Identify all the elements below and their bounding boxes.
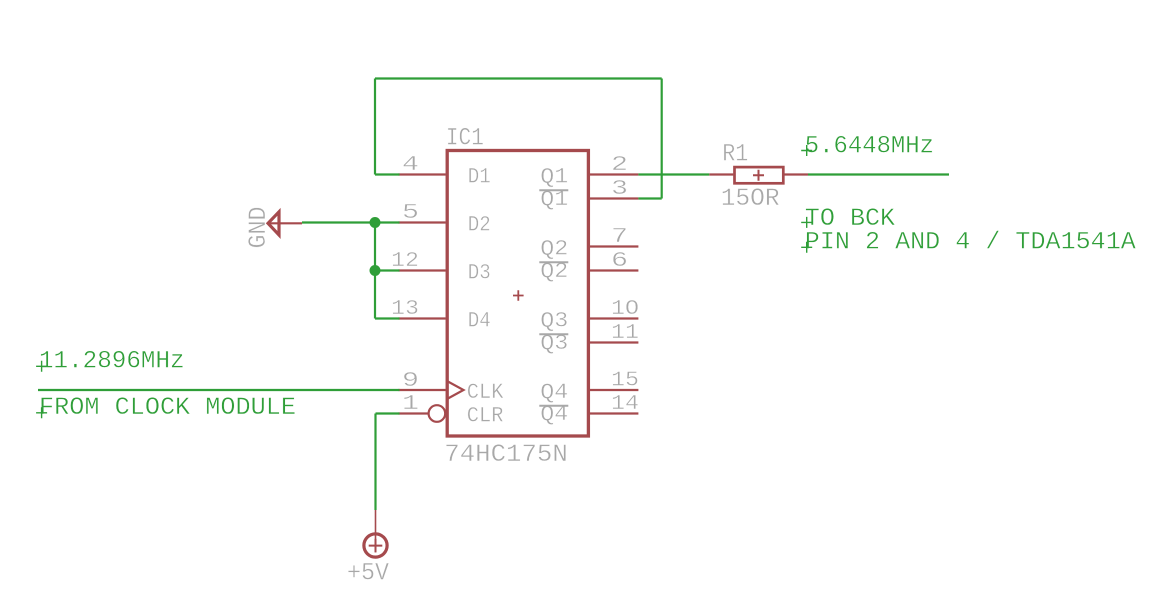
supply +5V bbox=[347, 510, 389, 588]
svg-text:D4: D4 bbox=[468, 309, 491, 334]
wire to pin 13 bbox=[375, 317, 400, 319]
pin 11 stub bbox=[590, 341, 638, 343]
svg-text:5: 5 bbox=[402, 202, 419, 225]
pin 7 stub bbox=[590, 245, 638, 247]
net label 5.6448MHz bbox=[801, 132, 934, 161]
svg-text:15: 15 bbox=[611, 370, 639, 393]
R1 right lead bbox=[784, 173, 808, 175]
+5V circle bbox=[364, 534, 387, 557]
net label 11.2896MHz bbox=[36, 347, 185, 376]
svg-text:2: 2 bbox=[611, 154, 628, 177]
svg-text:PIN 2 AND 4 / TDA1541A: PIN 2 AND 4 / TDA1541A bbox=[805, 227, 1136, 256]
pin 15 stub bbox=[590, 389, 638, 391]
R1 origin cross bbox=[753, 170, 764, 181]
wire feedback top horizontal bbox=[375, 77, 662, 79]
svg-text:7: 7 bbox=[611, 226, 628, 249]
pin 1 inversion bubble bbox=[429, 405, 446, 422]
svg-text:R1: R1 bbox=[722, 140, 748, 169]
svg-text:Q1: Q1 bbox=[540, 165, 568, 190]
wire pin 1 horizontal bbox=[376, 412, 400, 414]
wire resistor to output bbox=[808, 173, 949, 175]
pin 12 stub bbox=[398, 269, 445, 271]
svg-text:6: 6 bbox=[611, 250, 628, 273]
svg-text:11.2896MHz: 11.2896MHz bbox=[39, 347, 185, 376]
wire clock input to pin 9 bbox=[38, 389, 400, 391]
svg-text:4: 4 bbox=[402, 154, 419, 177]
svg-text:9: 9 bbox=[402, 370, 419, 393]
pin 13 stub bbox=[398, 317, 445, 319]
node junction 2 bbox=[370, 265, 381, 276]
wire junction2 down bbox=[374, 271, 376, 319]
wire junction1 to junction2 bbox=[374, 223, 376, 271]
pin 9 stub bbox=[398, 389, 445, 391]
wire junction2 to pin 12 bbox=[375, 269, 400, 271]
pin 5 stub bbox=[398, 221, 445, 223]
svg-text:5.6448MHz: 5.6448MHz bbox=[805, 132, 934, 161]
svg-text:IC1: IC1 bbox=[446, 124, 484, 153]
pin 4 stub bbox=[398, 173, 445, 175]
svg-text:Q3: Q3 bbox=[540, 309, 568, 334]
svg-text:74HC175N: 74HC175N bbox=[444, 440, 568, 469]
pin 10 stub bbox=[590, 317, 638, 319]
pin 9 clock triangle bbox=[447, 381, 464, 399]
text label PIN 2 AND 4 / TDA1541A bbox=[801, 227, 1136, 256]
R1 body bbox=[735, 167, 784, 183]
svg-text:Q2: Q2 bbox=[540, 237, 568, 262]
wire junction to pin 5 bbox=[375, 221, 400, 223]
wire pin2 to resistor bbox=[638, 173, 709, 175]
IC IC1 74HC175N quad D flip-flop bbox=[391, 124, 639, 470]
node junction 1 bbox=[370, 217, 381, 228]
svg-text:CLK: CLK bbox=[467, 380, 504, 405]
GND pin line bbox=[267, 222, 302, 224]
wire feedback to pin 3 bbox=[638, 197, 661, 199]
wire feedback right vertical bbox=[661, 79, 663, 199]
GND arrow triangle bbox=[268, 212, 279, 235]
wire pin 1 down to +5V bbox=[374, 414, 376, 511]
wire gnd to junction bbox=[302, 221, 375, 223]
svg-text:CLR: CLR bbox=[467, 404, 504, 429]
pin 6 stub bbox=[590, 269, 638, 271]
svg-text:FROM CLOCK MODULE: FROM CLOCK MODULE bbox=[39, 393, 296, 422]
svg-text:D3: D3 bbox=[468, 261, 491, 286]
pin 2 stub bbox=[590, 173, 638, 175]
svg-text:15OR: 15OR bbox=[721, 184, 780, 213]
IC1 body bbox=[447, 151, 588, 437]
pin 14 stub bbox=[590, 412, 638, 414]
svg-text:D1: D1 bbox=[468, 165, 491, 190]
+5V cross bbox=[369, 539, 383, 553]
svg-text:1O: 1O bbox=[611, 298, 639, 321]
IC1 origin cross bbox=[513, 290, 524, 301]
R1 left lead bbox=[709, 173, 733, 175]
wire feedback to pin 4 bbox=[375, 173, 400, 175]
pin 3 stub bbox=[590, 197, 638, 199]
svg-text:1: 1 bbox=[402, 393, 419, 416]
svg-text:GND: GND bbox=[244, 207, 273, 249]
svg-text:D2: D2 bbox=[468, 213, 491, 238]
+5V pin line bbox=[375, 510, 377, 552]
svg-text:14: 14 bbox=[611, 393, 639, 416]
svg-text:3: 3 bbox=[611, 178, 628, 201]
ground bbox=[244, 207, 302, 249]
pin 1 stub bbox=[398, 412, 428, 414]
resistor R1 bbox=[709, 140, 808, 213]
svg-text:11: 11 bbox=[611, 322, 639, 345]
svg-text:+5V: +5V bbox=[347, 559, 389, 588]
text label TO BCK bbox=[801, 204, 895, 233]
wire feedback left vertical bbox=[374, 79, 376, 175]
text label FROM CLOCK MODULE bbox=[36, 393, 296, 422]
